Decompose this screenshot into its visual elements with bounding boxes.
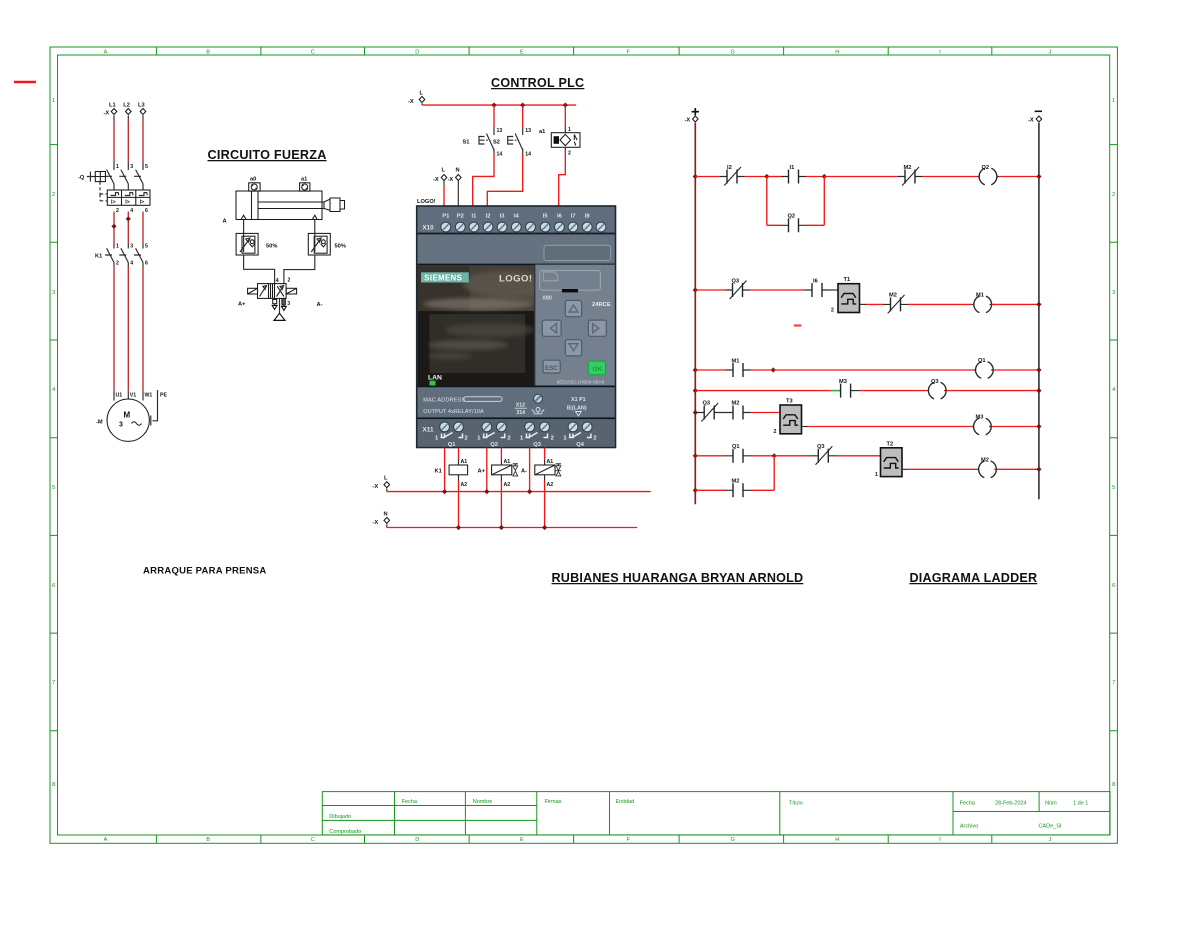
svg-text:1: 1 [1112,98,1115,104]
coil M2 [977,458,996,478]
ladder right rail [1038,123,1040,499]
node -X L terminal PLC supply [433,168,447,186]
svg-text:Q4: Q4 [576,442,585,448]
svg-text:A1: A1 [547,459,554,465]
svg-text:C: C [311,50,315,56]
svg-text:M2: M2 [889,293,897,299]
svg-text:3: 3 [130,164,133,170]
svg-text:Q3: Q3 [931,379,939,385]
junction rung2 left rail [693,287,698,292]
junction seal rung left rail [693,488,698,493]
svg-text:B: B [206,837,210,843]
PLC U1 Siemens LOGO! 24RCE [417,206,616,448]
svg-text:Q1: Q1 [732,444,740,450]
node -X N terminal PLC supply [448,168,462,186]
node -X L terminal output bus [373,476,390,492]
svg-text:M1: M1 [976,293,984,299]
sensor a0 on cylinder [249,177,260,192]
svg-text:X10: X10 [423,225,435,232]
solenoid coil A- [521,459,561,488]
svg-text:LOGO!: LOGO! [417,199,436,205]
svg-text:ESC: ESC [545,365,558,372]
wire PLC Q2-1 to L bus [486,448,488,492]
svg-text:5: 5 [145,244,148,250]
svg-text:2: 2 [465,436,468,442]
svg-text:28-Feb-2024: 28-Feb-2024 [995,801,1027,807]
svg-text:J: J [1049,50,1052,56]
svg-text:2: 2 [116,261,119,267]
contact Q1 NO rung6 [726,444,751,463]
svg-text:D: D [415,837,419,843]
svg-text:P2: P2 [457,214,464,220]
contact I2 NC [720,165,745,186]
contact M2 NC rung2 [883,293,908,314]
svg-text:4: 4 [1112,387,1115,393]
svg-text:4: 4 [276,278,279,284]
contact I6 NO [805,279,830,298]
svg-text:a0: a0 [250,177,256,183]
svg-text:13: 13 [497,128,503,134]
junction rung1 left rail [693,174,698,179]
coil Q2 [978,165,1000,185]
svg-text:2: 2 [52,192,55,198]
coil M1 [972,293,991,313]
svg-text:I6: I6 [557,214,563,220]
contact M2 NO rung5 [721,401,751,420]
wire N terminal to PLC P2 [457,185,459,206]
svg-text:A1: A1 [461,459,468,465]
contact M2 NO seal [726,479,751,498]
breaker Q thermal-magnetic block [107,190,150,214]
junction node rung6 branch [772,453,777,458]
svg-text:A: A [104,837,108,843]
svg-text:3: 3 [130,244,133,250]
svg-text:A+: A+ [478,469,486,475]
circuit breaker Q (motor protection) [105,162,148,190]
svg-text:Q2: Q2 [788,214,796,220]
solenoid coil A+ [478,459,518,488]
svg-text:I1: I1 [471,214,477,220]
svg-text:314: 314 [516,410,525,416]
svg-text:3: 3 [287,301,290,307]
junction node Q1-1 on L bus [442,489,447,494]
svg-text:A1: A1 [504,459,511,465]
svg-text:1 de 1: 1 de 1 [1073,801,1088,807]
svg-text:4: 4 [130,261,133,267]
ground PE conductor [151,390,158,426]
svg-text:6: 6 [1112,583,1115,589]
svg-text:L1: L1 [109,103,116,109]
wire I6 to timer T1 [830,289,839,291]
pneumatic line cylinder left port to flow valve [243,220,245,234]
svg-text:-X: -X [104,111,110,117]
contact M3 NO [839,379,859,398]
svg-text:T1: T1 [844,277,851,283]
svg-text:M2: M2 [904,165,912,171]
svg-text:CIRCUITO FUERZA: CIRCUITO FUERZA [208,148,327,162]
junction node S1 tap [491,103,496,108]
svg-text:-Q: -Q [78,175,85,181]
wire breaker to contactor pole 3 [142,212,144,245]
wire L bus (outputs) [387,491,651,493]
svg-text:3: 3 [119,422,123,429]
junction node Q3-1 on L bus [527,489,532,494]
svg-text:Firmas: Firmas [545,799,562,805]
svg-text:3: 3 [52,290,55,296]
pneumatic line left valve to port 4 [244,255,275,284]
wire N bus (outputs) [387,527,637,529]
directional valve 5/2 [258,284,287,299]
wire PLC Q2-2 to coil A+ [500,448,502,461]
svg-text:Título: Título [789,801,803,807]
wire PLC Q3-1 to L bus [529,448,531,492]
svg-text:I3: I3 [500,214,506,220]
coil Q3 [927,379,946,399]
wire L terminal to PLC P1 [443,185,445,206]
svg-text:I>: I> [140,200,144,206]
contact Q3 NC rung2 [725,279,750,300]
svg-text:CADe_SI: CADe_SI [1039,824,1062,830]
svg-text:2: 2 [551,436,554,442]
wire timer T1 output to M2 [860,303,884,305]
svg-text:MAC ADDRESS: MAC ADDRESS [423,398,465,404]
junction rung4 left rail [693,388,698,393]
svg-text:a1: a1 [301,177,307,183]
air supply port 1 with source triangle [274,298,285,320]
wire junction to Q3 [774,455,810,457]
cylinder A (double acting) [223,191,345,225]
wire M2 to coil M1 [908,303,972,305]
svg-text:S2: S2 [493,140,500,146]
svg-text:A-: A- [521,469,527,475]
pneumatic line right valve to port 2 [284,255,315,284]
svg-text:6: 6 [145,261,148,267]
timer T3 [774,399,802,436]
svg-text:A+: A+ [238,302,246,308]
junction rung5 right rail [1036,424,1041,429]
svg-text:A-: A- [317,302,323,308]
wire coil Q2 to right rail [999,176,1039,178]
svg-text:1: 1 [52,98,55,104]
wire coil K1 to N bus [458,481,460,528]
wire green segment at M3 [831,390,841,392]
svg-text:1: 1 [116,164,119,170]
svg-text:I6: I6 [813,279,818,285]
svg-text:OUTPUT 4xRELAY/10A: OUTPUT 4xRELAY/10A [423,409,484,415]
wire bus to S1 [493,105,495,126]
wire coil Q1 to right rail [993,369,1039,371]
wire contactor to motor W1 [142,267,144,392]
svg-text:-X: -X [373,520,379,526]
svg-text:LOGO!: LOGO! [499,274,532,285]
svg-text:24RCE: 24RCE [592,302,611,308]
svg-text:A: A [223,219,227,225]
svg-text:M3: M3 [976,415,984,421]
svg-text:Archivo: Archivo [960,824,978,830]
junction node S2 tap [520,103,525,108]
svg-text:E: E [520,837,524,843]
proximity sensor a1 [539,127,580,157]
svg-text:-X: -X [1028,118,1034,124]
svg-text:LAN: LAN [428,375,442,382]
red mark under rung2 [794,324,802,326]
svg-text:Nombre: Nombre [473,799,493,805]
svg-text:-M: -M [96,420,103,426]
timer T2 [875,442,902,479]
wire contactor to motor V1 [127,267,129,392]
wire coil M2 to right rail [996,468,1039,470]
svg-text:K1: K1 [95,254,102,260]
svg-text:H: H [835,50,839,56]
flow control valve left 50% [236,233,277,255]
ladder left rail [694,123,696,504]
svg-text:I5: I5 [543,214,549,220]
junction rung6 left rail [693,453,698,458]
wire Q3 to I6 [750,289,805,291]
pushbutton S2 [493,127,531,158]
svg-text:Fecha: Fecha [960,801,976,807]
svg-text:14: 14 [525,152,531,158]
wire PLC Q1-2 to coil K1 [458,448,460,461]
wire coil M3 to right rail [991,426,1039,428]
svg-text:U1: U1 [116,393,123,399]
svg-text:M: M [124,411,131,420]
wire coil M1 to right rail [992,303,1039,305]
wire S1 to PLC input I1 [473,154,494,207]
svg-text:2: 2 [507,436,510,442]
svg-text:3: 3 [1112,290,1115,296]
junction rung2 right rail [1036,302,1041,307]
wire contactor to motor U1 [113,267,115,392]
junction node on L1 wire [111,224,116,229]
svg-text:X80: X80 [542,296,552,302]
svg-text:6: 6 [145,208,148,214]
wire L2 to breaker [127,119,129,162]
wire coil Q3 to right rail [946,390,1039,392]
solenoid A+ (left pilot) [238,288,258,307]
node L2 terminal [123,103,131,120]
svg-text:7: 7 [52,680,55,686]
wire Q1 to junction [751,455,775,457]
junction rung6 right rail [1036,467,1041,472]
svg-text:DIAGRAMA LADDER: DIAGRAMA LADDER [910,571,1038,585]
node L1 terminal [104,103,117,120]
svg-text:8: 8 [1112,782,1115,788]
node -X - ladder right rail terminal [1028,111,1042,123]
svg-text:8: 8 [52,782,55,788]
svg-text:4: 4 [52,387,55,393]
timer T1 [831,277,860,314]
svg-text:2: 2 [288,277,291,283]
motor M1 (3-phase) [96,392,167,442]
svg-text:Q2: Q2 [982,165,990,171]
svg-text:A2: A2 [461,482,468,488]
svg-text:a1: a1 [539,129,545,135]
svg-text:G: G [731,50,735,56]
svg-text:A2: A2 [504,482,511,488]
svg-text:Núm: Núm [1045,801,1057,807]
wire L1 to breaker [113,119,115,162]
wire bus to sensor a1 [564,105,566,126]
coil Q1 [974,358,993,378]
svg-text:B: B [206,50,210,56]
junction rung5 left rail [693,410,698,415]
wire Q3 to timer T2 [836,455,881,457]
svg-text:M2: M2 [981,458,989,464]
svg-text:50%: 50% [335,244,346,250]
svg-text:-X: -X [408,99,414,105]
contact Q2 NO (seal-in) [781,214,806,233]
svg-text:K1: K1 [435,469,442,475]
wire rung4 rail to M3 [695,390,831,392]
svg-text:PE: PE [160,393,167,399]
wire I1 to node [806,176,824,178]
node -X + ladder left rail terminal [685,108,700,124]
svg-text:2: 2 [774,429,777,435]
junction branch left [764,174,769,179]
wire rung3 rail to M1 [695,369,725,371]
wire timer T2 output to coil M2 [902,468,977,470]
svg-text:E: E [520,50,524,56]
svg-text:RUBIANES HUARANGA BRYAN ARNOLD: RUBIANES HUARANGA BRYAN ARNOLD [552,571,804,585]
junction node rung3 [771,367,776,372]
svg-text:T2: T2 [887,442,894,448]
svg-text:M2: M2 [732,401,740,407]
svg-text:Comprobado: Comprobado [329,829,361,835]
svg-text:Q3: Q3 [533,442,542,448]
svg-text:M1: M1 [732,359,740,365]
svg-text:I4: I4 [514,214,520,220]
red revision dash mark top-left [14,81,36,84]
wire M2 to timer T3 [751,412,781,414]
wire M1 to junction [751,369,774,371]
svg-text:-X: -X [448,177,454,183]
title block [322,792,1110,836]
wire M3 to coil Q3 [859,390,927,392]
junction rung3 left rail [693,367,698,372]
svg-text:Q1: Q1 [978,358,986,364]
svg-text:1: 1 [875,472,878,478]
wire parallel branch verticals [767,177,825,226]
flow control valve right 50% [308,233,346,255]
svg-text:5: 5 [52,485,55,491]
svg-text:I2: I2 [727,165,732,171]
contactor K1 main contacts [95,244,148,267]
wire junction to coil Q1 [773,369,974,371]
svg-text:6ED1052-1HB00-0BA8: 6ED1052-1HB00-0BA8 [557,380,605,385]
contact Q3 NC rung5 [695,401,721,422]
svg-text:2: 2 [116,208,119,214]
junction branch right [822,174,827,179]
svg-text:N: N [456,168,460,174]
contact I1 NO [781,165,806,184]
valve exhaust ports 5 and 3 [272,298,290,310]
svg-text:7: 7 [1112,680,1115,686]
wire rung1 rail to I2 [695,176,720,178]
svg-text:1: 1 [116,244,119,250]
svg-text:L: L [384,476,388,482]
wire coil A+ to N bus [500,481,502,528]
wire branch to Q2 contact [767,224,825,226]
svg-text:CONTROL PLC: CONTROL PLC [491,76,584,90]
junction node Q2-1 on L bus [484,489,489,494]
junction node A+ on N bus [499,525,504,530]
svg-text:-X: -X [685,118,691,124]
svg-text:-X: -X [373,484,379,490]
svg-text:Q3: Q3 [703,401,711,407]
wire coil A- to N bus [544,481,546,528]
junction rung1 right rail [1036,174,1041,179]
svg-text:SIEMENS: SIEMENS [424,274,462,283]
wire breaker to contactor pole 1 [113,212,115,245]
svg-text:J: J [1049,837,1052,843]
wire control L bus [422,104,576,106]
svg-text:Q2: Q2 [490,442,498,448]
svg-text:IE(LAN): IE(LAN) [567,405,587,411]
svg-text:L2: L2 [123,103,130,109]
junction rung4 right rail [1036,388,1041,393]
pushbutton S1 [463,127,503,158]
svg-text:X12: X12 [516,403,525,409]
svg-text:I>: I> [125,200,129,206]
wire M2 seal to branch [751,489,775,491]
svg-text:A: A [104,50,108,56]
svg-text:I>: I> [111,200,115,206]
svg-text:-X: -X [433,177,439,183]
svg-text:M2: M2 [732,479,740,485]
contact M2 NC rung1 [898,165,923,186]
svg-text:1: 1 [568,127,571,133]
wire seal branch vertical [773,456,775,491]
wire PLC Q1-1 to L bus [444,448,446,492]
wire node to I1 [767,176,781,178]
breaker Q actuator [78,172,107,201]
junction node on L2 wire [126,216,131,221]
svg-text:M3: M3 [839,379,847,385]
svg-text:14: 14 [497,152,503,158]
svg-text:2: 2 [831,308,834,314]
wire bus to S2 [522,105,524,126]
contact Q3 NC rung6 [811,444,837,465]
solenoid A- (right pilot) [286,288,323,308]
wire L3 to breaker [142,119,144,162]
coil K1 [435,459,468,488]
svg-text:L: L [442,168,446,174]
svg-text:G: G [731,837,735,843]
svg-text:H: H [835,837,839,843]
svg-text:Fecha: Fecha [402,799,418,805]
svg-text:4: 4 [130,208,133,214]
svg-text:5: 5 [1112,485,1115,491]
sensor a1 on cylinder [300,177,310,192]
wire I2 to node [745,176,767,178]
wire S2 to PLC input I2 [487,154,522,207]
svg-text:Entidad: Entidad [616,799,635,805]
wire rail to M2 seal contact [695,489,725,491]
svg-text:L3: L3 [138,103,145,109]
pneumatic line cylinder right port to flow valve [314,220,316,234]
wire breaker to contactor pole 2 [127,212,129,245]
svg-text:Dibujado: Dibujado [329,814,351,820]
svg-text:S1: S1 [463,140,470,146]
svg-text:I1: I1 [790,165,795,171]
junction node a1 tap [563,103,568,108]
svg-text:2: 2 [568,151,571,157]
svg-text:L: L [420,91,424,97]
wire M2 to coil Q2 [923,176,978,178]
svg-text:V1: V1 [130,393,136,399]
svg-text:2: 2 [1112,192,1115,198]
